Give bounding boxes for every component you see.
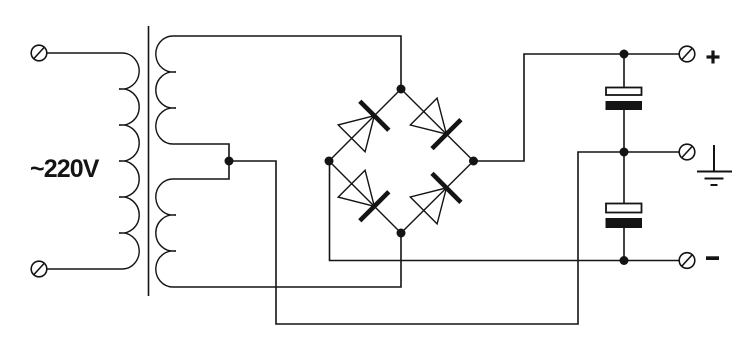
wire AC top terminal to primary [47,52,122,54]
terminal AC input bottom [31,261,47,277]
node bridge bottom [397,229,406,238]
label minus sign [706,256,719,260]
node plus rail [620,50,629,59]
capacitor C1 negative plate [606,101,643,110]
terminal minus output [679,253,695,269]
capacitor C2 negative plate [606,218,643,228]
transformer primary winding [119,53,139,269]
bridge arm left-top [329,89,401,161]
bridge arm bottom-right [401,161,474,233]
wire bridge right node to plus rail [474,54,680,161]
label ~220V [30,155,100,183]
transformer secondary winding bottom half [156,179,176,287]
wire secondary bottom to bridge bottom node [173,233,401,287]
terminal ground output [679,144,695,160]
capacitor C2 positive plate [606,204,642,213]
wire secondary center tap [173,144,229,179]
wire ground node to ground terminal [624,151,679,153]
wire capacitor C2 to minus node [623,228,625,261]
node bridge right [469,157,478,166]
transformer secondary winding top half [156,36,176,144]
diode D2 (top to right arm) [410,98,461,149]
capacitor C1 positive plate [606,88,642,96]
node ground rail [620,148,629,157]
wire ground node to capacitor C2 [623,152,625,204]
wire capacitor C1 to ground node [623,110,625,152]
node bridge left [325,157,334,166]
wire AC bottom terminal to primary [47,268,122,270]
diode D3 (left to bottom arm) [338,170,389,221]
diode D1 (left to top arm) [338,101,389,152]
wire secondary top to bridge top node [173,36,401,89]
wire plus node to capacitor C1 [623,54,625,88]
node bridge top [397,85,406,94]
terminal plus output [679,46,695,62]
bridge arm top-right [401,89,474,161]
node minus rail [620,256,629,265]
wire center tap to ground rail [229,152,624,324]
label plus sign [707,51,720,64]
terminal AC input top [31,45,47,61]
transformer core [148,26,150,296]
wire bridge left node to minus rail [330,161,680,261]
node center tap [225,157,234,166]
ground symbol [697,145,732,185]
diode D4 (bottom to right arm) [410,173,461,224]
bridge arm left-bottom [329,161,401,233]
svg-text:~220V: ~220V [30,155,100,183]
